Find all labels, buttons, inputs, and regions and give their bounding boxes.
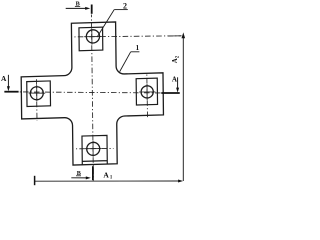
svg-text:A: A	[172, 76, 177, 84]
leader 2	[114, 9, 128, 11]
label B top underline	[75, 5, 80, 7]
right boss square	[136, 78, 157, 105]
leader 1	[131, 51, 140, 53]
left square vertical centerline	[35, 78, 38, 122]
right line top arrow	[182, 32, 186, 38]
left hole circle	[30, 87, 43, 100]
svg-text:1: 1	[136, 44, 140, 52]
section B bottom arrow	[71, 177, 86, 179]
right hole circle	[141, 86, 153, 99]
section B top end stroke	[91, 5, 93, 14]
bottom line right arrow	[178, 180, 183, 183]
section A left end stroke	[4, 91, 18, 93]
left boss square	[27, 81, 51, 107]
top boss square	[79, 27, 103, 51]
crosshair left circle	[29, 92, 46, 94]
section B bottom end stroke	[92, 166, 94, 180]
crosshair right circle	[139, 91, 155, 93]
label B bottom underline	[76, 175, 81, 177]
solid tail before A2 arrow	[168, 35, 182, 37]
cross-shaped part outline	[21, 21, 164, 167]
top square horizontal centerline	[74, 36, 182, 37]
svg-text:A: A	[103, 170, 109, 179]
section A left arrow	[7, 75, 9, 87]
svg-text:2: 2	[123, 1, 127, 10]
section A right end stroke	[161, 92, 179, 94]
horizontal main centerline	[4, 92, 179, 93]
right square vertical centerline	[146, 73, 149, 119]
projection trace bottom line	[35, 180, 179, 182]
projection trace right line	[182, 36, 184, 181]
label A2 right rotated	[171, 55, 180, 63]
bottom boss square with sides extended to arm end	[82, 135, 107, 164]
bottom hole circle	[87, 142, 100, 155]
section A right arrow	[177, 77, 179, 88]
svg-text:A: A	[1, 74, 7, 83]
bottom square horizontal centerline	[76, 147, 114, 149]
top hole circle	[86, 30, 99, 44]
crosshair top circle	[84, 36, 101, 38]
vertical main centerline	[91, 15, 93, 181]
crosshair bottom circle	[85, 148, 102, 150]
bottom line left end stroke	[34, 176, 36, 185]
section B top arrow	[66, 7, 86, 9]
